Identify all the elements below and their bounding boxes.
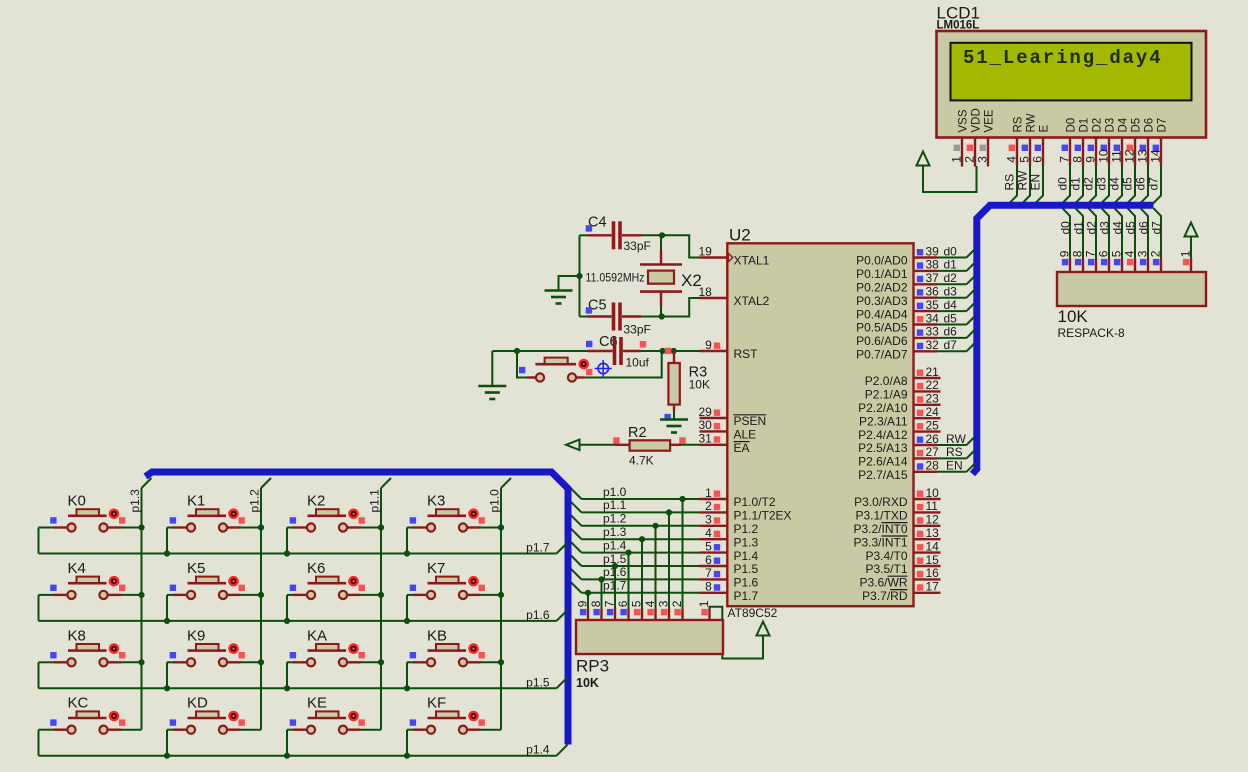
push button KA [287,627,381,688]
svg-text:10K: 10K [1058,307,1089,326]
svg-text:25: 25 [926,418,940,432]
svg-text:PSEN: PSEN [734,414,767,428]
svg-text:d3: d3 [1097,221,1111,235]
svg-text:d7: d7 [944,338,958,352]
svg-text:KF: KF [427,695,446,712]
svg-text:p1.1: p1.1 [368,489,382,513]
wires LCD pins 4-14 to bus with net labels [1002,166,1161,204]
svg-text:5: 5 [1017,156,1031,163]
svg-text:D1: D1 [1079,118,1091,133]
svg-text:3: 3 [656,600,670,607]
svg-text:27: 27 [926,445,940,459]
wire node XTAL1: C4/X2 junction to U2 pin 19 [659,232,700,257]
wires RP3 pins to p1.x nets [588,499,683,609]
svg-text:5: 5 [1109,250,1123,257]
svg-text:d3: d3 [1094,177,1108,191]
ground below R3 [660,414,688,433]
push button K5 [167,560,261,621]
svg-text:KD: KD [187,695,208,712]
svg-text:1: 1 [705,486,712,500]
svg-text:P3.6/WR: P3.6/WR [859,576,907,590]
svg-text:P0.5/AD5: P0.5/AD5 [856,321,908,335]
svg-text:6: 6 [1096,250,1110,257]
U2 left pins XTAL1 XTAL2 RST PSEN ALE EA [698,244,769,455]
svg-text:7: 7 [602,600,616,607]
svg-text:D0: D0 [1066,118,1078,133]
svg-text:P2.7/A15: P2.7/A15 [858,468,908,482]
svg-text:P3.0/RXD: P3.0/RXD [854,495,908,509]
resistor R3 10K [668,351,710,419]
keypad column lines p1.3 p1.2 p1.1 p1.0 [128,478,511,730]
svg-text:2: 2 [1148,250,1162,257]
svg-text:26: 26 [926,432,940,446]
wire junctions [164,524,264,556]
svg-text:D6: D6 [1144,118,1156,133]
svg-text:24: 24 [926,405,940,419]
svg-text:P1.3: P1.3 [734,535,759,549]
svg-text:VSS: VSS [958,109,970,132]
svg-text:RP3: RP3 [576,657,609,676]
svg-text:p1.5: p1.5 [526,675,550,689]
wires bus to RESPACK-8 with net labels d0-d7 [1058,208,1163,258]
ground for crystal caps [545,289,573,292]
RP3 pins 9..1 [575,600,711,620]
svg-text:P1.0/T2: P1.0/T2 [734,495,776,509]
svg-text:P1.2: P1.2 [734,522,759,536]
svg-text:37: 37 [926,271,940,285]
resistor R2 4.7K [613,425,699,468]
svg-text:P0.0/AD0: P0.0/AD0 [856,254,908,268]
wire junctions [138,524,144,530]
svg-text:3: 3 [975,156,989,163]
svg-text:10K: 10K [576,676,599,690]
svg-text:d0: d0 [1058,221,1072,235]
svg-text:10uf: 10uf [626,356,650,370]
svg-text:9: 9 [1083,156,1097,163]
wire junctions [164,659,264,691]
wire junctions [284,753,290,759]
svg-text:10: 10 [1096,149,1110,163]
svg-text:P0.4/AD4: P0.4/AD4 [856,307,908,321]
svg-text:33pF: 33pF [624,323,651,337]
svg-text:P0.7/AD7: P0.7/AD7 [856,348,908,362]
svg-text:5: 5 [629,600,643,607]
svg-text:K2: K2 [307,493,325,510]
svg-text:R2: R2 [628,425,647,441]
svg-text:RS: RS [1013,116,1025,132]
U2 pins 21-28 P2.0-P2.7 [858,365,940,482]
svg-text:d6: d6 [1136,221,1150,235]
push button K1 [167,493,261,554]
svg-text:33: 33 [926,325,940,339]
wire junctions [164,592,264,624]
wire junctions [404,524,504,556]
push button K7 [407,560,501,621]
resistor pack RESPACK-8 10K [1057,272,1206,340]
svg-text:34: 34 [926,311,940,325]
svg-text:13: 13 [926,526,940,540]
svg-text:14: 14 [926,539,940,553]
U2 pins 10-17 P3.0-P3.7 [853,486,940,603]
svg-text:3: 3 [1135,250,1149,257]
svg-text:P1.5: P1.5 [734,562,759,576]
svg-text:K9: K9 [187,627,205,644]
LCD pin names [958,108,1169,132]
svg-text:23: 23 [926,392,940,406]
svg-text:D5: D5 [1131,118,1143,133]
svg-text:4: 4 [1122,250,1136,257]
push button K4 [39,560,142,621]
wires p1.0-p1.7 from keypad bus to U2 pins 1-8 [571,485,700,596]
svg-text:K0: K0 [68,493,86,510]
svg-text:p1.2: p1.2 [248,489,262,513]
svg-text:d7: d7 [1149,221,1163,235]
push button K6 [287,560,381,621]
microcontroller U2 AT89C52 body [727,226,913,621]
svg-text:p1.7: p1.7 [526,541,550,555]
svg-text:XTAL1: XTAL1 [734,254,770,268]
wire junctions [404,592,504,624]
power arrow VCC below U2 with wire to RP3 pin 1 [710,607,770,659]
svg-text:d1: d1 [944,258,958,272]
svg-text:P3.3/INT1: P3.3/INT1 [853,535,907,549]
svg-text:9: 9 [1057,250,1071,257]
svg-text:d2: d2 [1081,177,1095,191]
capacitor C5 33pF [580,298,662,337]
svg-text:d6: d6 [1133,177,1147,191]
svg-text:P3.5/T1: P3.5/T1 [865,562,907,576]
wire junctions [164,753,170,759]
svg-text:33pF: 33pF [624,239,651,253]
bus (blue) around keypad [146,472,569,745]
ground for reset button [478,351,506,399]
svg-text:28: 28 [926,459,940,473]
svg-text:P1.7: P1.7 [734,589,759,603]
svg-text:d7: d7 [1146,177,1160,191]
svg-text:p1.6: p1.6 [526,608,550,622]
svg-text:15: 15 [926,553,940,567]
wires U2 P2.5-P2.7 to bus, net labels RW RS EN [937,432,975,473]
svg-text:5: 5 [705,539,712,553]
svg-text:KA: KA [307,627,327,644]
svg-text:4: 4 [705,526,712,540]
svg-text:11: 11 [926,499,939,513]
svg-text:p1.2: p1.2 [603,512,627,526]
LCD pins 1-14 with numbers and state squares [949,138,1162,167]
RESPACK-8 pins 9..2 and pin 1 [1057,250,1192,272]
wire C4-C5 left rail [559,235,583,316]
push button K9 [167,627,261,688]
svg-text:K7: K7 [427,560,445,577]
svg-text:8: 8 [1070,250,1084,257]
svg-text:RST: RST [734,347,759,361]
push button KB [407,627,501,688]
svg-text:d6: d6 [944,325,958,339]
svg-text:22: 22 [926,378,940,392]
svg-text:K8: K8 [68,627,86,644]
svg-text:2: 2 [705,499,712,513]
svg-text:P3.2/INT0: P3.2/INT0 [853,522,907,536]
svg-text:8: 8 [589,600,603,607]
svg-text:VEE: VEE [984,109,996,132]
wire RST node [492,348,699,354]
power arrow VCC for LCD VDD [917,152,977,193]
svg-text:RW: RW [946,432,966,446]
svg-text:X2: X2 [681,271,702,290]
svg-text:1: 1 [949,156,963,163]
svg-text:38: 38 [926,258,940,272]
LCD display LCD1 LM016L [937,4,1207,138]
svg-text:D7: D7 [1157,118,1169,133]
svg-text:d1: d1 [1071,221,1085,235]
svg-text:KC: KC [68,695,89,712]
svg-text:P3.1/TXD: P3.1/TXD [855,509,907,523]
svg-text:P1.4: P1.4 [734,549,759,563]
push button K2 [287,493,381,554]
wire junctions [284,659,384,691]
svg-text:39: 39 [926,244,940,258]
svg-text:RW: RW [1015,170,1029,190]
svg-text:D3: D3 [1105,118,1117,133]
wire node XTAL2: C5/X2 junction to U2 pin 18 [659,298,700,320]
svg-text:RW: RW [1026,113,1038,132]
svg-text:P2.1/A9: P2.1/A9 [865,388,908,402]
svg-text:13: 13 [1135,149,1149,163]
blue crosshair marker [595,360,612,377]
svg-text:10K: 10K [689,378,710,392]
XTAL1 clock input symbol [728,253,732,262]
svg-text:p1.3: p1.3 [128,489,142,513]
svg-text:11: 11 [1109,150,1123,163]
svg-text:12: 12 [1122,149,1136,163]
svg-text:P2.2/A10: P2.2/A10 [858,401,908,415]
wire junctions [404,753,410,759]
svg-text:30: 30 [698,418,712,432]
svg-text:35: 35 [926,298,940,312]
ground arrow (left) at R2 [566,440,614,450]
svg-text:d1: d1 [1068,177,1082,191]
svg-text:P0.3/AD3: P0.3/AD3 [856,294,908,308]
svg-text:AT89C52: AT89C52 [728,606,778,620]
svg-text:11.0592MHz: 11.0592MHz [586,271,645,285]
wire junctions [0,0,1,1]
svg-text:19: 19 [698,244,712,258]
svg-text:d4: d4 [1110,221,1124,235]
svg-text:p1.1: p1.1 [603,498,627,512]
svg-text:RESPACK-8: RESPACK-8 [1058,326,1125,340]
svg-text:29: 29 [698,405,712,419]
wire junctions [138,659,144,665]
push button KD [167,695,261,756]
svg-text:8: 8 [705,580,712,594]
svg-text:8: 8 [1070,156,1084,163]
svg-text:d0: d0 [1055,177,1069,191]
svg-text:2: 2 [670,600,684,607]
svg-text:d2: d2 [944,271,958,285]
svg-text:1: 1 [697,600,711,607]
svg-text:d4: d4 [944,298,958,312]
svg-text:XTAL2: XTAL2 [734,294,770,308]
svg-text:P2.4/A12: P2.4/A12 [858,428,908,442]
keypad row lines p1.7 p1.6 p1.5 p1.4 [39,541,568,757]
push button (reset) [517,351,662,382]
svg-text:6: 6 [705,553,712,567]
svg-text:d4: d4 [1107,177,1121,191]
svg-text:P2.5/A13: P2.5/A13 [858,441,908,455]
svg-text:36: 36 [926,285,940,299]
svg-text:P0.2/AD2: P0.2/AD2 [856,281,908,295]
svg-text:K3: K3 [427,493,445,510]
svg-text:ALE: ALE [734,428,757,442]
wire junctions [138,592,144,598]
svg-text:D4: D4 [1118,117,1130,132]
svg-text:6: 6 [1030,156,1044,163]
svg-text:D2: D2 [1092,118,1104,133]
svg-text:d3: d3 [944,285,958,299]
push button K8 [39,627,142,688]
svg-text:P1.1/T2EX: P1.1/T2EX [734,509,792,523]
svg-text:10: 10 [926,486,940,500]
svg-text:7: 7 [1057,156,1071,163]
push button K3 [407,493,501,554]
svg-text:P2.3/A11: P2.3/A11 [859,414,908,428]
svg-text:P2.6/A14: P2.6/A14 [858,455,908,469]
push button KE [287,695,381,756]
svg-text:p1.0: p1.0 [488,489,502,513]
svg-text:p1.4: p1.4 [526,743,550,757]
svg-text:7: 7 [705,566,712,580]
svg-text:EN: EN [946,459,963,473]
svg-text:P3.4/T0: P3.4/T0 [865,549,907,563]
svg-text:2: 2 [962,156,976,163]
svg-text:P2.0/A8: P2.0/A8 [865,374,908,388]
svg-text:RS: RS [1002,174,1016,191]
bus (blue) from LCD/RESPACK down to U2 port0 [973,205,1154,474]
svg-text:EA: EA [734,441,750,455]
svg-text:d5: d5 [1120,177,1134,191]
crystal X2 11.0592MHz [586,235,702,316]
svg-text:21: 21 [926,365,940,379]
wire junctions [284,524,384,556]
svg-text:51_Learing_day4: 51_Learing_day4 [963,47,1163,69]
svg-text:p1.3: p1.3 [603,525,627,539]
svg-text:d2: d2 [1084,221,1098,235]
svg-text:E: E [1039,125,1051,133]
svg-text:9: 9 [705,338,712,352]
svg-text:U2: U2 [729,226,751,245]
svg-text:K5: K5 [187,560,205,577]
svg-text:K6: K6 [307,560,325,577]
svg-text:d5: d5 [1123,221,1137,235]
svg-text:9: 9 [575,600,589,607]
capacitor C4 33pF [580,215,663,254]
svg-text:7: 7 [1083,250,1097,257]
svg-text:EN: EN [1028,174,1042,191]
U2 pins 1-8 P1.0-P1.7 [700,486,792,603]
svg-text:14: 14 [1148,149,1162,163]
svg-text:K4: K4 [68,560,86,577]
svg-text:d0: d0 [944,244,958,258]
svg-text:32: 32 [926,338,940,352]
svg-text:P0.6/AD6: P0.6/AD6 [856,334,908,348]
power arrow VCC at RESPACK-8 pin 1 [1185,223,1198,259]
svg-text:P0.1/AD1: P0.1/AD1 [856,267,908,281]
svg-text:p1.4: p1.4 [603,538,627,552]
svg-text:KE: KE [307,695,327,712]
svg-text:4: 4 [1004,156,1018,163]
svg-text:VDD: VDD [971,108,983,132]
svg-text:6: 6 [616,600,630,607]
svg-text:KB: KB [427,627,447,644]
svg-text:3: 3 [705,513,712,527]
svg-text:K1: K1 [187,493,205,510]
svg-text:31: 31 [698,432,712,446]
svg-text:16: 16 [926,566,940,580]
svg-text:4: 4 [643,600,657,607]
push button K0 [39,493,142,554]
push button KC [39,695,142,756]
svg-text:p1.0: p1.0 [603,485,627,499]
svg-text:4.7K: 4.7K [629,454,654,468]
svg-text:d5: d5 [944,311,958,325]
wires U2 P0 to bus, net labels d0-d7 [937,244,975,352]
svg-text:P3.7/RD: P3.7/RD [862,589,908,603]
svg-text:P1.6: P1.6 [734,576,759,590]
svg-text:RS: RS [946,445,963,459]
U2 pins 39-32 P0.0-P0.7 [856,244,939,361]
svg-text:17: 17 [926,580,940,594]
resistor pack RP3 10K [576,620,723,690]
push button KF [407,695,501,756]
wire junctions [284,592,384,624]
wire junctions [404,659,504,691]
svg-text:12: 12 [926,513,940,527]
capacitor C6 10uf [586,334,650,370]
